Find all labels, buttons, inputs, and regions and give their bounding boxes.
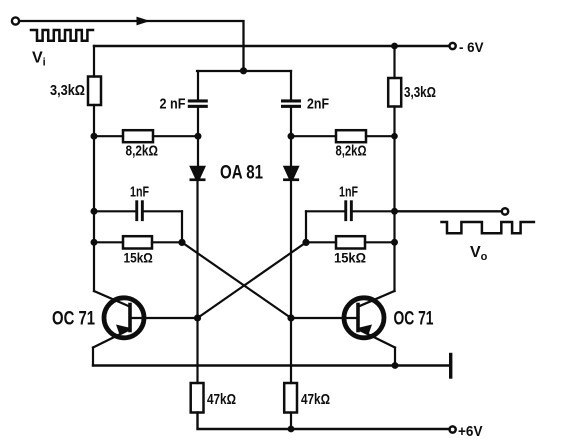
resistor 8,2k left with wires [94, 135, 123, 137]
junction right col / 1nF [391, 208, 398, 215]
junction left col / 15k [91, 239, 98, 246]
diode OA81 right [283, 166, 300, 179]
junction left col / 8,2k [91, 133, 98, 140]
input terminal Vi [12, 17, 19, 24]
svg-text:15kΩ: 15kΩ [124, 251, 153, 266]
capacitor 2nF left [188, 99, 208, 102]
svg-text:47kΩ: 47kΩ [301, 392, 330, 408]
wire top header between capacitors [197, 70, 291, 72]
junction 1nF/15k right [302, 239, 309, 246]
svg-text:2nF: 2nF [307, 97, 329, 113]
wire emitter rail [93, 364, 449, 366]
junction 1nF/15k left [178, 239, 185, 246]
svg-text:3,3kΩ: 3,3kΩ [50, 83, 85, 99]
wire output [395, 210, 502, 212]
junction rail / right collector column [391, 43, 398, 50]
wire right cap to diode [290, 108, 292, 166]
svg-text:- 6V: - 6V [459, 39, 484, 55]
wire right collector column [393, 107, 395, 292]
svg-text:15kΩ: 15kΩ [334, 251, 366, 266]
wire right 47k bottom [290, 413, 292, 430]
svg-text:1nF: 1nF [339, 185, 358, 201]
junction right base [287, 314, 294, 321]
terminal -6V [450, 43, 456, 49]
wire left collector column [93, 105, 95, 291]
svg-text:3,3kΩ: 3,3kΩ [404, 85, 436, 101]
junction right 47k / +6V rail [288, 426, 295, 433]
junction right col / 8,2k [391, 133, 398, 140]
wire right cap column top [290, 71, 292, 100]
transistor Q2 OC71 right [291, 291, 395, 366]
wire right collector column top [393, 46, 395, 78]
junction right col / 15k [391, 239, 398, 246]
resistor 47k right [284, 383, 297, 413]
input waveform symbol [31, 30, 93, 41]
svg-text:8,2kΩ: 8,2kΩ [126, 144, 159, 160]
terminal Vo [502, 208, 508, 214]
wire left cap column top [197, 71, 199, 100]
wire left cap to diode [197, 108, 199, 166]
wire left diode to base junction [196, 181, 198, 318]
svg-text:2 nF: 2 nF [160, 97, 186, 113]
wire right diode to base junction [290, 181, 292, 318]
wire right base column to 47k [290, 318, 292, 383]
terminal +6V [450, 426, 456, 432]
svg-text:Vi: Vi [32, 50, 46, 69]
svg-text:1nF: 1nF [130, 185, 149, 201]
transistor Q1 OC71 left [93, 291, 198, 366]
resistor 15k left with wires [94, 241, 123, 243]
junction right cap col / 8,2k [288, 133, 295, 140]
svg-text:Vo: Vo [470, 244, 488, 263]
svg-text:OA 81: OA 81 [220, 163, 263, 184]
wire left 47k to +6V rail [198, 413, 450, 430]
junction left col / 1nF [91, 208, 98, 215]
capacitor 1nF left with wires [94, 210, 135, 212]
wire cross-coupling left-to-right [182, 242, 291, 318]
ground bar [449, 355, 452, 378]
resistor 47k left [191, 383, 204, 413]
junction left base [194, 314, 201, 321]
wire -6V rail [94, 45, 449, 47]
svg-text:OC 71: OC 71 [394, 309, 434, 330]
svg-text:OC 71: OC 71 [52, 309, 95, 330]
junction trigger / header [240, 67, 247, 74]
resistor 3,3k right [388, 78, 401, 107]
junction right emitter / rail [392, 362, 399, 369]
arrowhead on trigger wire [137, 17, 151, 26]
resistor 3,3k left [88, 77, 101, 106]
capacitor 1nF right with wires [305, 211, 307, 242]
wire cross-coupling right-to-left [198, 242, 307, 318]
diode OA81 left [189, 166, 206, 179]
resistor 8,2k right with wires [291, 135, 336, 137]
resistor 15k right with wires [306, 241, 336, 243]
wire trigger top [20, 21, 244, 71]
svg-text:8,2kΩ: 8,2kΩ [336, 144, 367, 160]
output waveform symbol [442, 222, 534, 233]
wire left base column to 47k [196, 318, 198, 383]
junction left cap col / 8,2k [195, 133, 202, 140]
capacitor 2nF right [281, 99, 301, 102]
svg-text:+6V: +6V [458, 423, 483, 440]
svg-text:47kΩ: 47kΩ [207, 392, 236, 408]
wire left collector column top [93, 46, 95, 77]
